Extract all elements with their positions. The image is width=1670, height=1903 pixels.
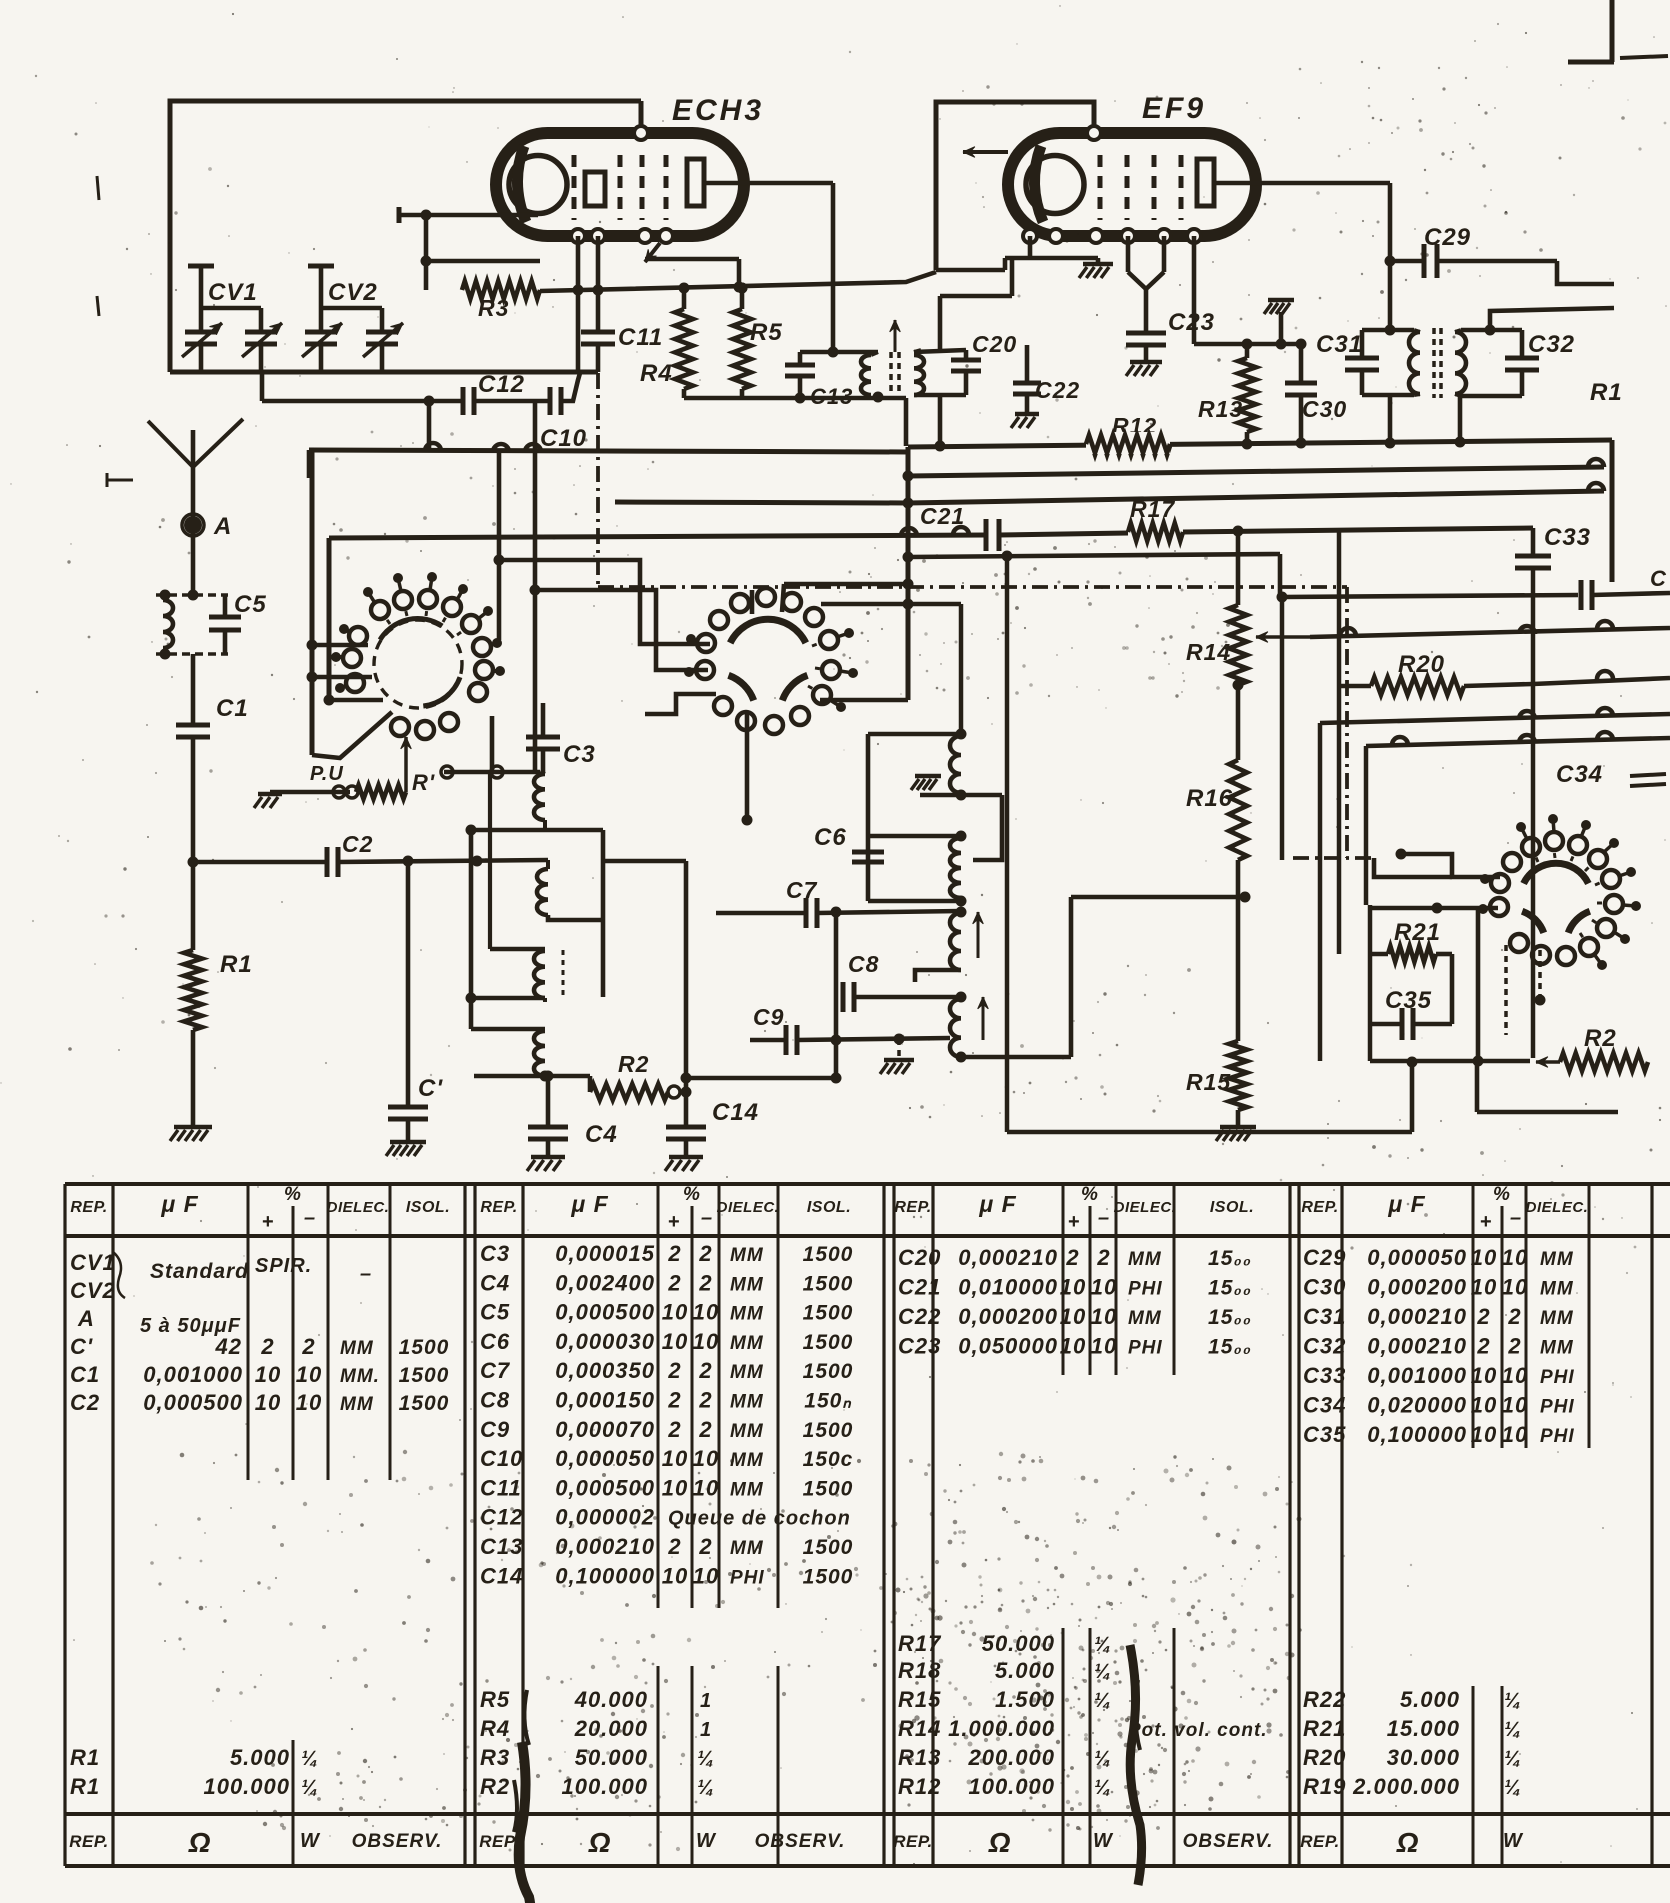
wire socket S3 feeds xyxy=(1401,854,1500,877)
svg-text:2: 2 xyxy=(698,1241,712,1266)
svg-text:15₀₀: 15₀₀ xyxy=(1208,1247,1252,1270)
wire C20 bottom drop xyxy=(938,395,943,446)
svg-text:10: 10 xyxy=(1502,1245,1528,1270)
svg-text:R3: R3 xyxy=(480,1745,510,1770)
svg-text:R1: R1 xyxy=(70,1745,100,1770)
svg-text:1.500: 1.500 xyxy=(995,1687,1055,1712)
svg-text:2: 2 xyxy=(260,1334,274,1359)
svg-text:C35: C35 xyxy=(1303,1422,1346,1447)
wire x908 lower xyxy=(906,604,911,700)
svg-text:R18: R18 xyxy=(898,1658,941,1683)
capacitor C21 xyxy=(984,519,989,551)
svg-text:0,002400: 0,002400 xyxy=(555,1270,655,1295)
svg-text:2: 2 xyxy=(667,1388,681,1413)
svg-text:0,100000: 0,100000 xyxy=(1367,1422,1467,1447)
wire det box mid xyxy=(868,834,961,839)
wire C33 down xyxy=(1531,568,1536,1058)
svg-text:R1: R1 xyxy=(220,951,253,978)
svg-text:MM: MM xyxy=(1128,1308,1162,1329)
svg-text:REP.: REP. xyxy=(1301,1199,1338,1216)
svg-text:C8: C8 xyxy=(848,951,879,977)
resistor R12 xyxy=(1086,437,1170,455)
antenna coupling box C5 xyxy=(156,593,228,597)
svg-text:30.000: 30.000 xyxy=(1387,1745,1460,1770)
wire y597 left drop xyxy=(1280,597,1285,860)
ink smudge W column xyxy=(1130,1645,1142,1885)
svg-text:OBSERV.: OBSERV. xyxy=(1183,1831,1274,1852)
svg-text:10: 10 xyxy=(1060,1275,1086,1300)
capacitor C4 xyxy=(546,1076,551,1125)
inductor L-det4 xyxy=(950,999,961,1057)
wire lower right L xyxy=(1476,908,1481,1061)
svg-text:C29: C29 xyxy=(1424,224,1471,251)
wire ECH3 top feed xyxy=(639,101,644,133)
svg-text:20.000: 20.000 xyxy=(574,1716,648,1741)
svg-text:ECH3: ECH3 xyxy=(672,94,764,127)
svg-text:MM: MM xyxy=(730,1538,764,1559)
rect ECH3 grid box xyxy=(585,172,605,206)
svg-text:REP.: REP. xyxy=(1300,1832,1340,1851)
capacitor C7 xyxy=(716,911,806,916)
svg-text:10: 10 xyxy=(255,1362,281,1387)
svg-text:10: 10 xyxy=(1502,1363,1528,1388)
svg-text:10: 10 xyxy=(693,1300,719,1325)
svg-text:10: 10 xyxy=(1060,1304,1086,1329)
wire C32 bottom drop xyxy=(1458,396,1463,442)
svg-text:SPIR.: SPIR. xyxy=(255,1255,312,1277)
svg-text:1500: 1500 xyxy=(399,1364,450,1387)
capacitor C6 xyxy=(852,850,884,855)
svg-text:–: – xyxy=(1098,1207,1110,1229)
svg-text:Ω: Ω xyxy=(1396,1827,1420,1858)
resistor R13 xyxy=(1245,344,1250,358)
svg-text:1500: 1500 xyxy=(803,1565,854,1588)
svg-text:10: 10 xyxy=(662,1563,688,1588)
variable capacitor CV2 xyxy=(308,264,334,269)
svg-text:C8: C8 xyxy=(480,1388,510,1413)
wire ECH3 grid1 net xyxy=(424,215,429,290)
svg-text:10: 10 xyxy=(693,1446,719,1471)
svg-text:PHI: PHI xyxy=(730,1567,765,1588)
svg-text:1500: 1500 xyxy=(399,1336,450,1359)
inductor L1a xyxy=(540,772,545,774)
svg-text:10: 10 xyxy=(662,1329,688,1354)
potentiometer R14 xyxy=(1236,531,1241,605)
wire det out riser xyxy=(1069,897,1074,1057)
svg-text:C29: C29 xyxy=(1303,1245,1346,1270)
table brace CV1 CV2 xyxy=(113,1252,125,1298)
svg-text:2: 2 xyxy=(698,1270,712,1295)
svg-text:P.U: P.U xyxy=(310,763,344,785)
svg-text:C7: C7 xyxy=(786,877,818,903)
wire C5 to C1 xyxy=(191,654,196,723)
svg-text:C9: C9 xyxy=(480,1417,510,1442)
svg-text:C9: C9 xyxy=(753,1004,784,1030)
svg-text:DIELEC.: DIELEC. xyxy=(717,1199,780,1216)
svg-text:C12: C12 xyxy=(480,1505,523,1530)
wire socket S2 bottom drop xyxy=(745,714,750,820)
svg-text:0,020000: 0,020000 xyxy=(1367,1393,1467,1418)
wire C7 C8 return xyxy=(686,1076,836,1081)
wire bus lower xyxy=(615,502,908,503)
svg-text:C14: C14 xyxy=(480,1563,523,1588)
svg-text:10: 10 xyxy=(693,1475,719,1500)
svg-text:¼: ¼ xyxy=(1094,1748,1112,1770)
capacitor C30 xyxy=(1299,344,1304,381)
wire socket S2 top feeds xyxy=(750,590,755,614)
svg-text:C31: C31 xyxy=(1303,1304,1346,1329)
svg-text:R15: R15 xyxy=(1186,1069,1231,1095)
capacitor C-edge xyxy=(1579,580,1584,610)
svg-text:¼: ¼ xyxy=(1504,1719,1522,1741)
svg-text:1500: 1500 xyxy=(803,1419,854,1442)
capacitor C3 xyxy=(541,703,546,735)
svg-text:2: 2 xyxy=(301,1334,315,1359)
svg-text:¼: ¼ xyxy=(1504,1690,1522,1712)
ground C14 xyxy=(669,1155,703,1160)
svg-text:MM: MM xyxy=(1540,1308,1574,1329)
wire B5 right part xyxy=(1183,528,1533,532)
svg-text:10: 10 xyxy=(1060,1334,1086,1359)
svg-text:1.000.000: 1.000.000 xyxy=(948,1716,1055,1741)
svg-text:OBSERV.: OBSERV. xyxy=(755,1831,846,1852)
svg-text:0,000070: 0,000070 xyxy=(555,1417,655,1442)
wire det4 bottom xyxy=(956,1052,967,1063)
inductor L-C20 xyxy=(914,355,924,395)
svg-text:0,001000: 0,001000 xyxy=(1367,1363,1467,1388)
svg-text:Ω: Ω xyxy=(188,1827,212,1858)
svg-text:R1: R1 xyxy=(1590,379,1623,406)
scan noise xyxy=(1088,543,1090,545)
ground R1 xyxy=(174,1125,212,1130)
svg-text:2: 2 xyxy=(667,1417,681,1442)
svg-text:R20: R20 xyxy=(1398,651,1445,678)
svg-text:R3: R3 xyxy=(478,295,509,321)
wire AVC dash-dot xyxy=(596,373,600,587)
svg-text:0,000210: 0,000210 xyxy=(958,1245,1058,1270)
svg-text:MM: MM xyxy=(730,1245,764,1266)
inductor L-C13 xyxy=(861,355,871,395)
svg-text:C3: C3 xyxy=(480,1241,510,1266)
tuning arrow IF1 xyxy=(894,320,897,352)
svg-text:10: 10 xyxy=(693,1563,719,1588)
svg-text:10: 10 xyxy=(693,1329,719,1354)
svg-text:2: 2 xyxy=(1476,1304,1490,1329)
tuning arrow det3 xyxy=(977,912,980,958)
svg-text:1500: 1500 xyxy=(803,1331,854,1354)
wire socket S3 pin stems xyxy=(1504,945,1508,1035)
svg-text:¼: ¼ xyxy=(1094,1777,1112,1799)
table column lines xyxy=(63,1184,66,1866)
svg-text:5.000: 5.000 xyxy=(995,1658,1055,1683)
wire wiper line xyxy=(1310,628,1670,637)
wire EF9 heater arrow xyxy=(963,150,1008,154)
ground screen rail xyxy=(1279,312,1284,344)
svg-text:2: 2 xyxy=(1507,1304,1521,1329)
wire left nest vertical x329 xyxy=(327,538,332,700)
core dashes IF1 xyxy=(889,352,893,396)
svg-text:Pot. vol. cont.: Pot. vol. cont. xyxy=(1128,1720,1268,1741)
resistor R22 xyxy=(1536,1060,1560,1064)
svg-text:2: 2 xyxy=(698,1388,712,1413)
svg-text:C4: C4 xyxy=(480,1270,510,1295)
tube socket S3 xyxy=(1524,863,1589,883)
svg-text:R4: R4 xyxy=(640,360,673,387)
svg-text:C32: C32 xyxy=(1303,1334,1346,1359)
wire x603 to C14 column xyxy=(603,859,686,864)
inductor L1b xyxy=(546,860,550,869)
svg-text:C20: C20 xyxy=(972,331,1017,357)
svg-text:2: 2 xyxy=(667,1534,681,1559)
svg-text:0,001000: 0,001000 xyxy=(143,1362,243,1387)
wire nest bottom L xyxy=(1007,1130,1412,1135)
inductor L-det3 xyxy=(950,913,961,970)
svg-text:W: W xyxy=(300,1830,321,1852)
svg-text:10: 10 xyxy=(1502,1393,1528,1418)
svg-text:¼: ¼ xyxy=(697,1748,715,1770)
svg-text:C33: C33 xyxy=(1303,1363,1346,1388)
svg-text:%: % xyxy=(1081,1184,1099,1205)
svg-text:10: 10 xyxy=(1471,1363,1497,1388)
wire R21 box bottom xyxy=(1370,1059,1530,1064)
wire C12 to C10 xyxy=(474,399,548,404)
svg-text:40.000: 40.000 xyxy=(574,1687,648,1712)
capacitor C32 tank xyxy=(1461,328,1522,333)
svg-text:2: 2 xyxy=(1096,1245,1110,1270)
ground R15 xyxy=(1220,1125,1256,1130)
wire R1 to ground xyxy=(191,1030,196,1125)
svg-text:0,000050: 0,000050 xyxy=(555,1446,655,1471)
svg-text:–: – xyxy=(304,1207,316,1229)
wire EF9 screen down xyxy=(1192,236,1197,344)
capacitor C13 tank xyxy=(800,350,878,355)
wire bus B5 C21 R17 xyxy=(329,535,986,538)
svg-text:1500: 1500 xyxy=(803,1477,854,1500)
svg-text:C6: C6 xyxy=(814,824,847,851)
svg-text:¼: ¼ xyxy=(301,1748,319,1770)
tube socket S2 xyxy=(730,619,806,643)
svg-text:100.000: 100.000 xyxy=(968,1774,1055,1799)
svg-text:2: 2 xyxy=(667,1241,681,1266)
svg-text:W: W xyxy=(1093,1830,1114,1852)
hop crossings B5 xyxy=(901,528,917,536)
wire socket S1 bottom diag xyxy=(312,712,392,758)
svg-text:MM: MM xyxy=(1128,1249,1162,1270)
svg-text:10: 10 xyxy=(1502,1422,1528,1447)
svg-text:MM: MM xyxy=(730,1479,764,1500)
svg-text:R2: R2 xyxy=(618,1051,649,1077)
svg-text:1: 1 xyxy=(700,1690,712,1712)
svg-text:A: A xyxy=(77,1306,95,1331)
wire C1 to R1 xyxy=(191,737,196,950)
svg-text:C3: C3 xyxy=(563,741,596,768)
svg-text:MM: MM xyxy=(340,1394,374,1415)
capacitor C-prime xyxy=(406,861,411,1105)
wire det box bottom xyxy=(868,899,961,904)
svg-text:C': C' xyxy=(70,1334,93,1359)
svg-text:10: 10 xyxy=(296,1362,322,1387)
wire L1c top feed xyxy=(488,772,492,949)
svg-text:Ω: Ω xyxy=(988,1827,1012,1858)
svg-text:C13: C13 xyxy=(480,1534,523,1559)
svg-text:C11: C11 xyxy=(480,1475,522,1500)
svg-text:REP.: REP. xyxy=(70,1199,107,1216)
capacitor C31 tank xyxy=(1362,328,1414,333)
capacitor C20 tank xyxy=(914,350,966,352)
svg-text:C5: C5 xyxy=(480,1300,510,1325)
svg-text:C10: C10 xyxy=(480,1446,523,1471)
inductor L1d xyxy=(471,1027,545,1032)
wire antenna down xyxy=(191,430,196,467)
svg-text:C34: C34 xyxy=(1303,1393,1346,1418)
wire socket S1 top feeds xyxy=(497,452,502,640)
tuning arrow det4 xyxy=(982,997,985,1040)
svg-text:C23: C23 xyxy=(1168,309,1215,336)
svg-text:MM: MM xyxy=(730,1421,764,1442)
svg-text:15₀₀: 15₀₀ xyxy=(1208,1336,1252,1359)
svg-text:10: 10 xyxy=(1471,1245,1497,1270)
svg-text:Ω: Ω xyxy=(588,1827,612,1858)
svg-text:10: 10 xyxy=(1091,1334,1117,1359)
svg-text:C2: C2 xyxy=(342,831,373,857)
svg-text:C30: C30 xyxy=(1303,1275,1346,1300)
wire C12 junction drop xyxy=(533,401,538,772)
wire screen rail xyxy=(1194,342,1301,347)
wire R3 to EF9 line xyxy=(540,272,936,291)
svg-text:DIELEC.: DIELEC. xyxy=(327,1199,390,1216)
svg-text:R15: R15 xyxy=(898,1687,941,1712)
svg-text:Queue de cochon: Queue de cochon xyxy=(668,1508,851,1530)
wire C31 bottom drop xyxy=(1388,395,1393,443)
resistor R1 xyxy=(184,950,202,1030)
svg-text:+: + xyxy=(668,1211,681,1233)
resistor R16 xyxy=(1236,685,1241,760)
svg-text:10: 10 xyxy=(255,1390,281,1415)
resistor R17 xyxy=(1128,523,1183,541)
svg-text:0,000002: 0,000002 xyxy=(555,1505,655,1530)
svg-text:2: 2 xyxy=(1065,1245,1079,1270)
svg-text:10: 10 xyxy=(1471,1422,1497,1447)
svg-text:10: 10 xyxy=(1091,1275,1117,1300)
svg-text:2: 2 xyxy=(698,1534,712,1559)
scan edge mark left xyxy=(97,176,99,200)
wire C29 down to C31 xyxy=(1388,261,1393,330)
wire coil bottom row xyxy=(474,1074,590,1079)
svg-text:C30: C30 xyxy=(1302,396,1347,422)
svg-text:0,000350: 0,000350 xyxy=(555,1358,655,1383)
capacitor C8 xyxy=(834,912,839,1078)
svg-text:MM: MM xyxy=(730,1304,764,1325)
svg-text:1: 1 xyxy=(700,1719,712,1741)
svg-text:REP.: REP. xyxy=(69,1832,109,1851)
svg-text:0,100000: 0,100000 xyxy=(555,1563,655,1588)
svg-text:R4: R4 xyxy=(480,1716,510,1741)
svg-text:C32: C32 xyxy=(1528,331,1575,358)
svg-text:C31: C31 xyxy=(1316,331,1363,358)
svg-text:EF9: EF9 xyxy=(1142,92,1206,125)
wire coil top row xyxy=(444,770,540,775)
svg-text:1500: 1500 xyxy=(803,1243,854,1266)
wire pin drop x492 xyxy=(490,716,495,772)
svg-text:C21: C21 xyxy=(920,503,965,529)
wire to bus drop xyxy=(904,398,909,446)
capacitor C14 xyxy=(684,861,689,1125)
svg-text:%: % xyxy=(284,1184,302,1205)
svg-text:¼: ¼ xyxy=(1504,1777,1522,1799)
svg-text:R22: R22 xyxy=(1303,1687,1346,1712)
wire ECH3 anode arrow lead xyxy=(645,243,660,262)
svg-text:2.000.000: 2.000.000 xyxy=(1352,1774,1460,1799)
svg-text:¼: ¼ xyxy=(697,1777,715,1799)
svg-text:MM: MM xyxy=(340,1338,374,1359)
capacitor C33 xyxy=(1531,528,1536,554)
wire socket S1 left pins xyxy=(312,643,368,648)
svg-text:MM.: MM. xyxy=(340,1366,380,1387)
svg-text:REP.: REP. xyxy=(893,1832,933,1851)
svg-text:PHI: PHI xyxy=(1128,1338,1163,1359)
svg-text:CV1: CV1 xyxy=(208,279,258,306)
svg-text:R2: R2 xyxy=(480,1774,510,1799)
svg-text:ISOL.: ISOL. xyxy=(807,1199,851,1216)
wire EF9 grid join xyxy=(1126,236,1131,272)
svg-text:MM: MM xyxy=(1540,1249,1574,1270)
svg-text:R19: R19 xyxy=(1303,1774,1346,1799)
svg-text:5.000: 5.000 xyxy=(230,1745,290,1770)
svg-text:1500: 1500 xyxy=(803,1536,854,1559)
ground EF9 cathode xyxy=(1096,258,1101,262)
svg-text:ISOL.: ISOL. xyxy=(1210,1199,1254,1216)
inductor L-det2 xyxy=(950,838,961,898)
wire R4 R5 bottom xyxy=(684,396,906,401)
wire top box xyxy=(170,101,641,372)
wire ECH3 cathode lead xyxy=(399,213,538,218)
svg-text:MM: MM xyxy=(730,1274,764,1295)
svg-text:0,000210: 0,000210 xyxy=(1367,1334,1467,1359)
svg-text:C1: C1 xyxy=(70,1362,100,1387)
svg-text:0,000200: 0,000200 xyxy=(958,1304,1058,1329)
svg-text:A: A xyxy=(213,513,232,540)
svg-text:ISOL.: ISOL. xyxy=(406,1199,450,1216)
resistor R15 xyxy=(1229,1041,1247,1110)
wire C20 top to EF9 xyxy=(938,296,943,350)
svg-text:10: 10 xyxy=(1502,1275,1528,1300)
svg-text:2: 2 xyxy=(1507,1334,1521,1359)
svg-text:R17: R17 xyxy=(898,1631,942,1656)
svg-text:2: 2 xyxy=(667,1358,681,1383)
svg-text:MM: MM xyxy=(730,1362,764,1383)
ground C23 xyxy=(1130,360,1162,365)
svg-text:DIELEC.: DIELEC. xyxy=(1526,1199,1589,1216)
svg-text:50.000: 50.000 xyxy=(575,1745,648,1770)
wire det coil1 bottom xyxy=(956,790,967,801)
svg-text:¼: ¼ xyxy=(1094,1661,1112,1683)
wire C2 row xyxy=(193,860,328,865)
resistor R21 xyxy=(1368,905,1373,1061)
svg-text:%: % xyxy=(1493,1184,1511,1205)
resistor R4 xyxy=(682,288,687,309)
wire bus right vertical xyxy=(1610,440,1615,582)
svg-text:CV1: CV1 xyxy=(70,1250,116,1275)
svg-text:0,000500: 0,000500 xyxy=(555,1300,655,1325)
capacitor C5 xyxy=(223,595,228,615)
svg-text:R13: R13 xyxy=(1198,396,1243,422)
core dashes IF2 xyxy=(1432,328,1436,398)
wire ECH3 anode out xyxy=(703,181,833,186)
wire EF9 anode out xyxy=(1213,181,1390,186)
svg-text:0,000500: 0,000500 xyxy=(143,1390,243,1415)
svg-text:0,050000: 0,050000 xyxy=(958,1334,1058,1359)
wire det right step xyxy=(973,795,1002,860)
